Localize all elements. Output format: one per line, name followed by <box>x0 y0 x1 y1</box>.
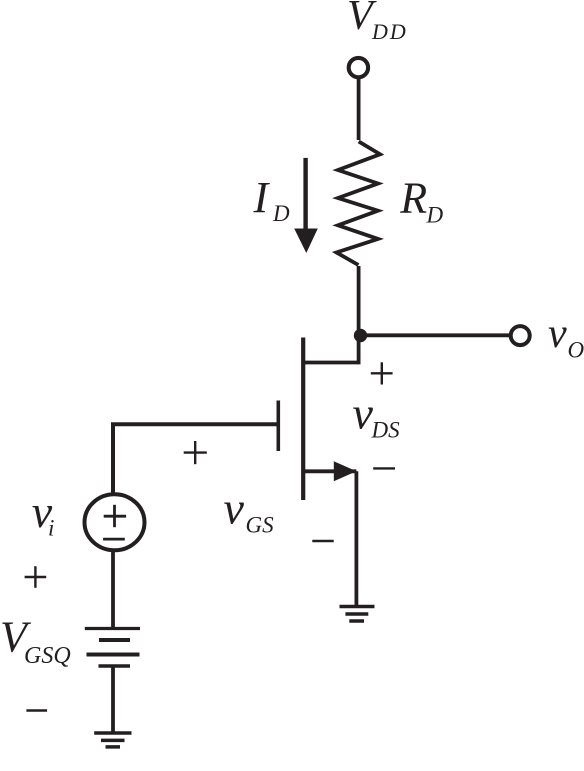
svg-text:v: v <box>224 483 245 534</box>
svg-text:O: O <box>568 338 584 363</box>
svg-text:R: R <box>399 174 427 223</box>
svg-text:GS: GS <box>246 513 275 538</box>
svg-text:DS: DS <box>371 418 401 443</box>
svg-text:D: D <box>426 202 444 227</box>
svg-text:v: v <box>353 388 374 439</box>
svg-text:D: D <box>272 201 290 226</box>
svg-text:I: I <box>253 173 271 222</box>
svg-text:v: v <box>548 311 567 357</box>
svg-text:i: i <box>48 516 54 541</box>
svg-text:DD: DD <box>371 19 408 44</box>
svg-text:GSQ: GSQ <box>24 643 71 669</box>
